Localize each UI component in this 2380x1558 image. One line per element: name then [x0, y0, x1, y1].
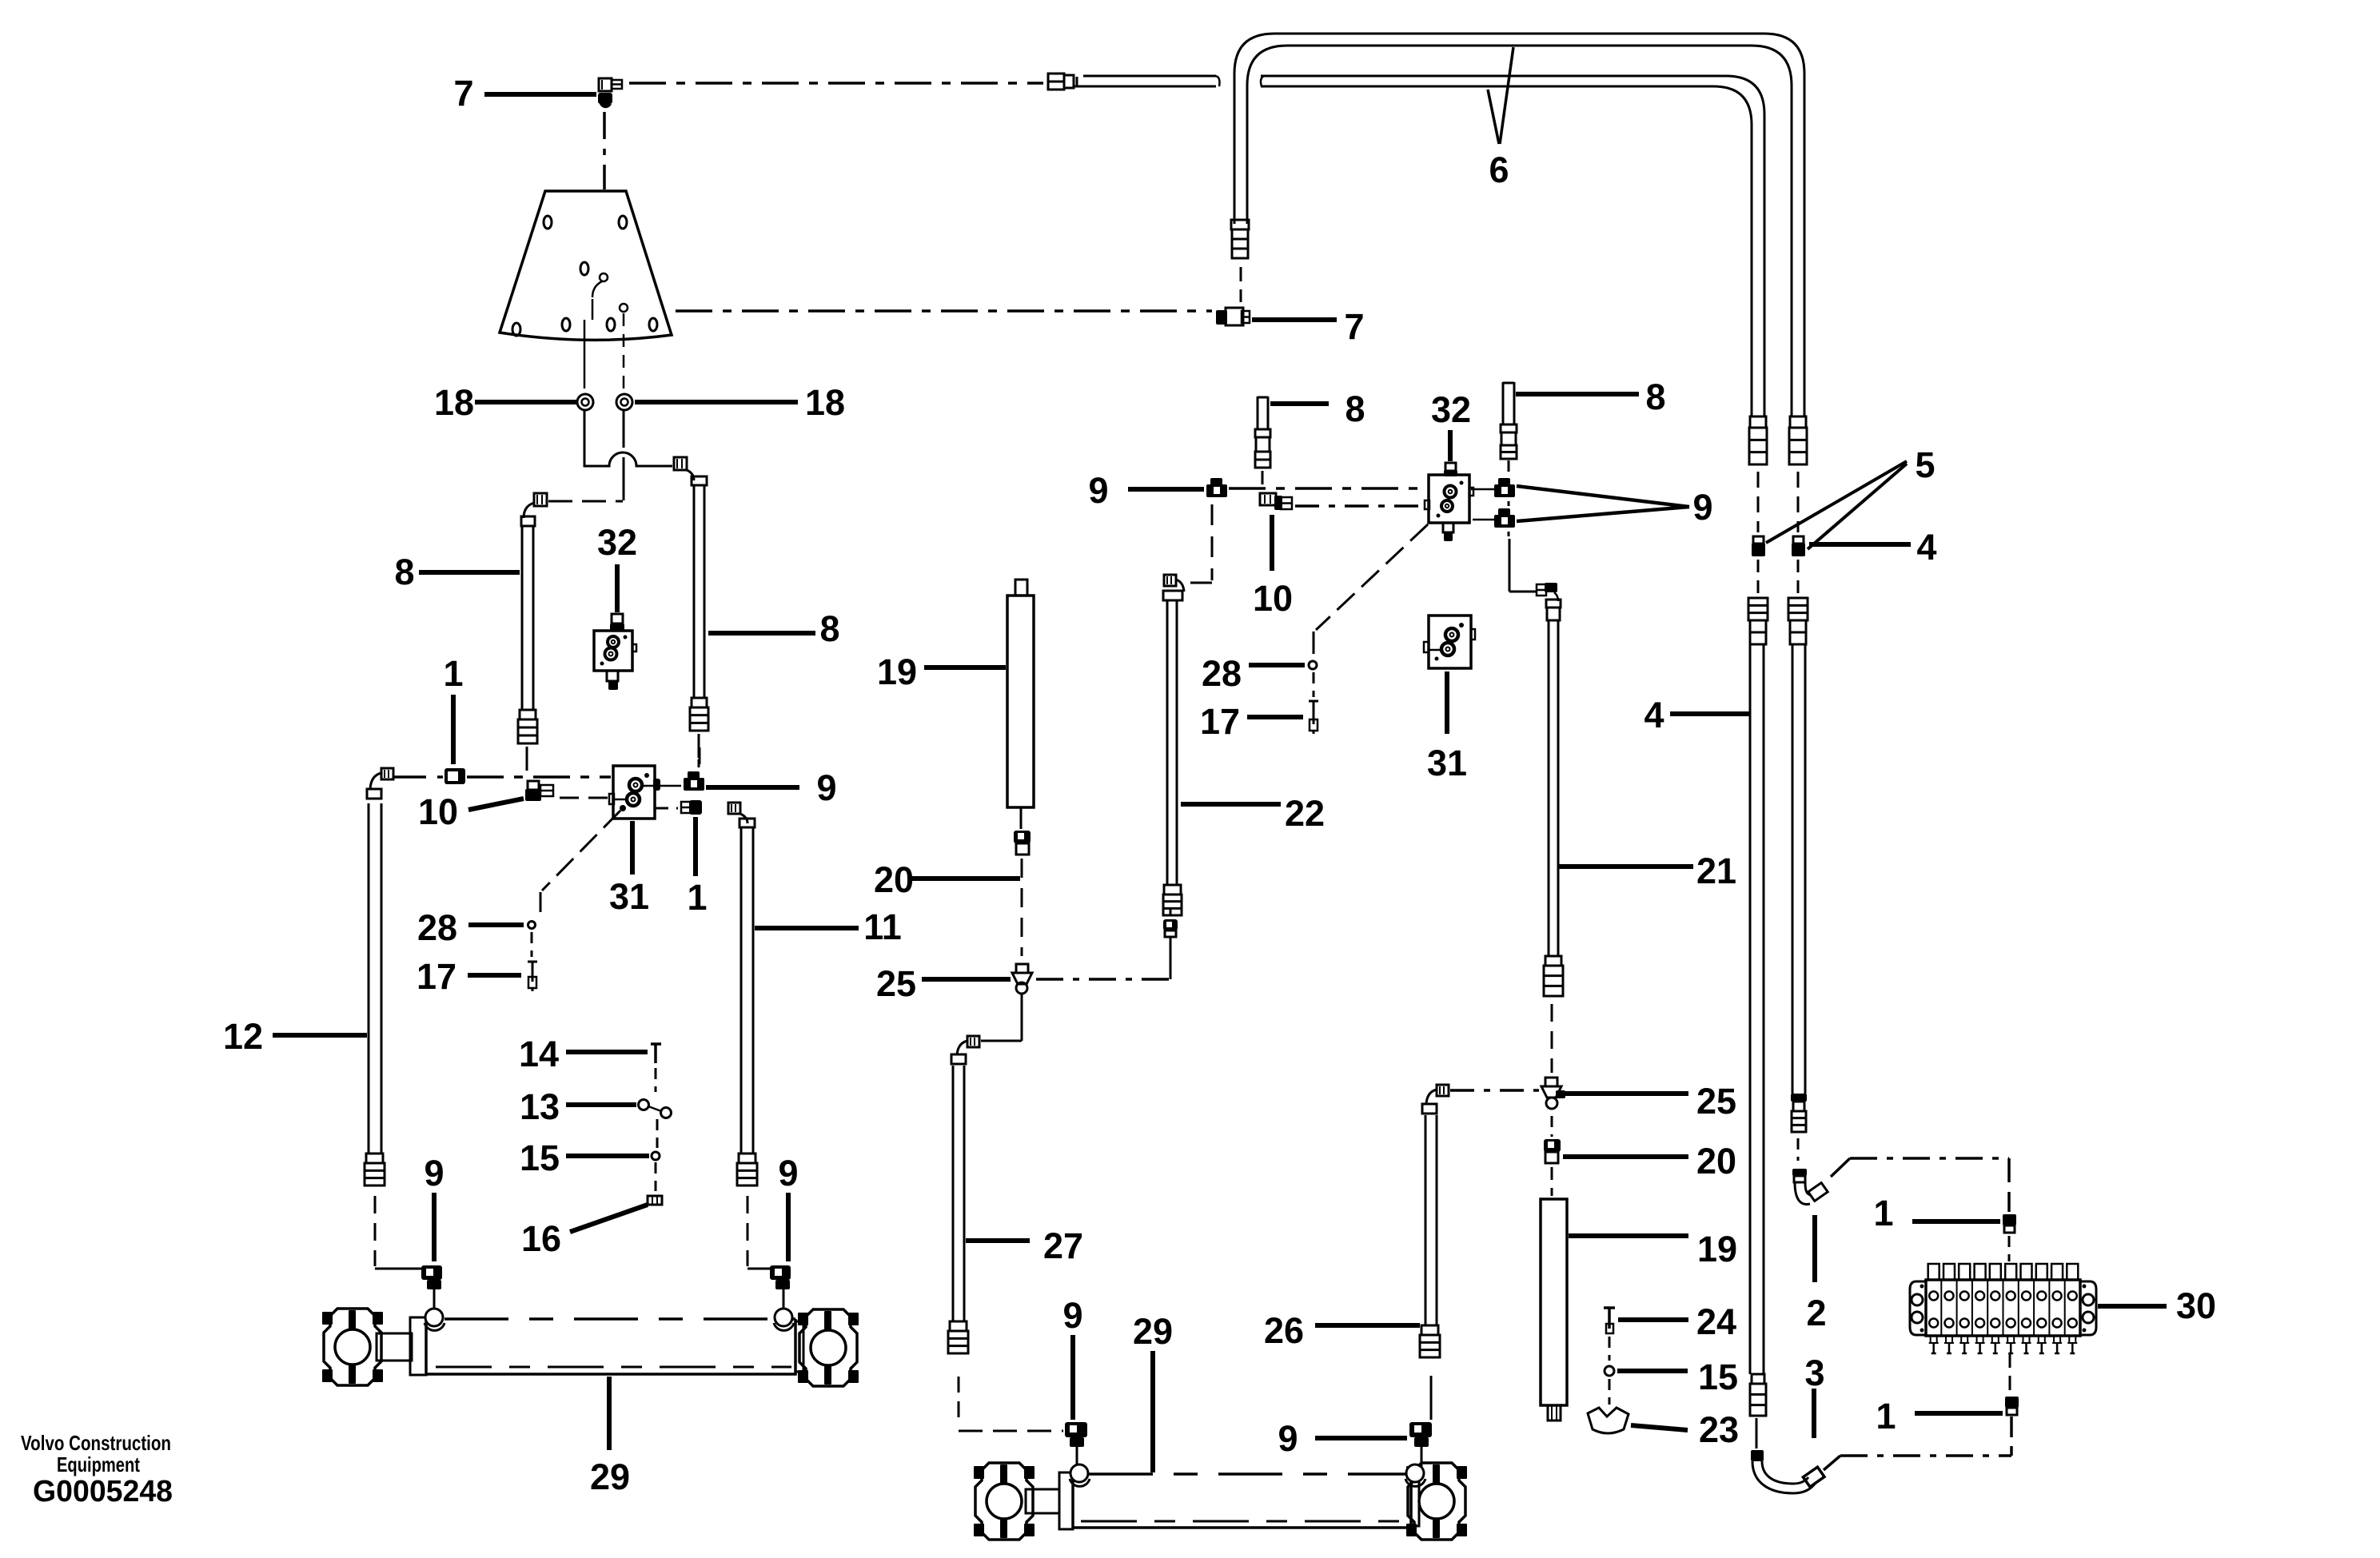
leader 4 left	[1670, 711, 1749, 716]
elbow fitting of hose 22	[1164, 575, 1176, 586]
svg-text:32: 32	[1431, 389, 1471, 430]
tube 6 outer (inner wall pair)	[1234, 34, 1804, 416]
wire to elbow 9 bottom-right of cyl29L	[747, 1268, 771, 1270]
leader 9 mid-left	[706, 785, 799, 790]
svg-text:15: 15	[1698, 1357, 1738, 1397]
cylinder 29 right - end cap	[1411, 1476, 1419, 1526]
svg-text:9: 9	[1088, 470, 1108, 511]
part 15 right (ball)	[1605, 1366, 1614, 1376]
svg-text:28: 28	[417, 907, 457, 948]
svg-text:9: 9	[424, 1153, 444, 1193]
svg-text:18: 18	[805, 382, 845, 423]
svg-text:9: 9	[816, 767, 836, 808]
bottom fitting of hose 22	[1164, 885, 1181, 895]
wire from lower T to hose 21 elbow	[1509, 539, 1511, 592]
dash-dot line from fitting 7 to hose 6b	[629, 82, 1043, 85]
leader 29 left	[607, 1377, 612, 1450]
svg-text:6: 6	[1489, 149, 1509, 190]
svg-text:G0005248: G0005248	[33, 1475, 173, 1508]
leader 23	[1631, 1425, 1688, 1430]
svg-text:11: 11	[863, 907, 902, 947]
stem of label 9 left	[432, 1193, 437, 1261]
hose 8 mid-right	[1502, 382, 1505, 424]
label 6 V-leader	[1500, 47, 1513, 144]
hose 8 mid-left	[1257, 396, 1259, 429]
hose 12	[368, 803, 370, 1154]
leader 19 mid	[924, 665, 1006, 670]
svg-text:30: 30	[2176, 1285, 2216, 1326]
leader 12	[273, 1033, 367, 1038]
dash 25R-20R	[1551, 1116, 1553, 1137]
bottom fitting of hose 27	[950, 1321, 967, 1331]
leaders for label 5	[1766, 461, 1907, 543]
svg-text:Equipment: Equipment	[57, 1452, 140, 1476]
bottom fitting of hose 11	[739, 1154, 755, 1163]
dash below T9 down to hose 22 elbow	[1211, 504, 1214, 580]
svg-text:10: 10	[1253, 578, 1293, 619]
svg-text:29: 29	[590, 1456, 630, 1497]
plate hole bottom right	[649, 318, 657, 331]
bottom fitting of hose 8 upper-left	[520, 710, 536, 719]
leader 30	[2098, 1304, 2167, 1309]
circle 28 left	[528, 922, 536, 929]
svg-text:32: 32	[597, 522, 637, 563]
svg-text:24: 24	[1696, 1301, 1736, 1342]
dash below hose 21	[1551, 1004, 1553, 1073]
svg-text:1: 1	[687, 877, 707, 918]
leader 9 (cyl29R right)	[1315, 1436, 1407, 1440]
wire 25 mid to hose 27 elbow	[1021, 994, 1023, 1041]
elbow 9 on cyl 29R left	[1065, 1422, 1087, 1437]
bottom fitting of hose 8 upper-right	[692, 698, 707, 707]
wire to elbow 9 bottom-left	[375, 1268, 421, 1270]
svg-text:25: 25	[1696, 1081, 1736, 1122]
hose 3 (bent hose)	[1751, 1450, 1764, 1461]
cylinder 29 right - center dash-dot line	[1081, 1520, 1407, 1523]
dash 28-17 left	[531, 932, 533, 957]
svg-text:15: 15	[520, 1138, 560, 1178]
dashes between T fittings	[1508, 501, 1510, 508]
svg-text:29: 29	[1133, 1311, 1173, 1352]
svg-text:1: 1	[443, 653, 463, 694]
cylinder 19 mid - body	[1007, 596, 1034, 807]
T fitting 9 right-lower	[1498, 508, 1510, 516]
dash left of fitting 1 right	[656, 807, 678, 810]
svg-text:13: 13	[520, 1086, 560, 1127]
dash 15-23	[1609, 1379, 1611, 1405]
fitting 1 upper	[2003, 1214, 2016, 1225]
cylinder 19 mid - rod line	[1020, 807, 1023, 829]
plate hole bottom row 3	[607, 318, 615, 331]
cylinder 29 left - right clamp	[799, 1309, 857, 1386]
tube 6 right leg fitting (left leg of pair)	[1750, 416, 1766, 428]
hose 21 top fitting	[1546, 600, 1561, 608]
plate hole bottom row 2	[562, 318, 570, 331]
stem of label 10 mid	[1270, 515, 1274, 571]
bottom fitting of hose 21	[1545, 956, 1561, 966]
svg-text:31: 31	[1427, 743, 1467, 783]
dashed line from plate hole down to washer 18 right	[623, 313, 625, 389]
leader 26	[1315, 1323, 1420, 1328]
svg-text:4: 4	[1916, 527, 1936, 568]
dashes 20 to 25 mid	[1021, 859, 1023, 956]
svg-text:10: 10	[418, 791, 458, 832]
svg-text:22: 22	[1285, 793, 1325, 834]
wire below hose 26	[1430, 1376, 1433, 1420]
elbow 9 on cyl 29L left	[421, 1265, 442, 1280]
hose 8 upper-right	[693, 485, 696, 698]
manifold 30 - top caps	[1928, 1264, 1939, 1280]
dashes above nuts 5	[1757, 472, 1760, 532]
elbow fitting of hose 8 upper-left	[534, 493, 547, 506]
leaders for label 9 right	[1517, 486, 1689, 507]
cylinder 29 left - right port	[775, 1309, 792, 1326]
cylinder 29 left - piston rod	[377, 1333, 412, 1361]
leader 17 left	[468, 973, 521, 978]
svg-text:8: 8	[819, 608, 839, 649]
cylinder 29 right - barrel	[1073, 1474, 1411, 1528]
dash 20R to cylinder 19R	[1551, 1167, 1553, 1196]
circle 28 mid	[1309, 661, 1317, 669]
svg-text:1: 1	[1876, 1396, 1896, 1436]
part 14 (plug)	[654, 1045, 657, 1063]
leader 9 mid	[1128, 487, 1204, 492]
fitting 7 mid	[1216, 310, 1227, 325]
tube 6 right leg fitting (right leg of pair)	[1790, 416, 1806, 428]
dash below hose 12	[374, 1196, 377, 1266]
T fitting 9 mid (left)	[1210, 478, 1222, 486]
fitting 10 left (tee with nut)	[528, 781, 539, 790]
svg-text:20: 20	[874, 859, 914, 900]
stub and dash below hose 8 upper-right	[698, 734, 700, 758]
leader 24	[1618, 1317, 1688, 1322]
T fitting 9 (left of hose 11)	[688, 771, 700, 779]
part 15 left (ball)	[652, 1152, 660, 1160]
hose 4 right top fitting	[1788, 598, 1808, 620]
dash-dot line from fitting 7 down to plate	[603, 112, 606, 189]
svg-text:21: 21	[1696, 851, 1736, 891]
cylinder 29 left - barrel	[426, 1319, 795, 1374]
svg-text:23: 23	[1699, 1409, 1739, 1450]
leader 15 left	[566, 1154, 649, 1158]
cylinder 19 right - body	[1541, 1199, 1567, 1405]
svg-text:9: 9	[1062, 1295, 1082, 1336]
svg-text:27: 27	[1043, 1225, 1083, 1266]
dash from fitting 10 to valve 31 left	[560, 797, 609, 799]
fitting 1 left (on dash-dot line)	[445, 768, 465, 784]
tube 6b right part with bend	[1261, 76, 1764, 416]
bottom fitting of valve 32 right	[1443, 523, 1453, 532]
hose 26 elbow	[1437, 1085, 1449, 1096]
washer 18 right	[616, 394, 632, 410]
svg-text:8: 8	[1345, 389, 1365, 429]
cylinder 29 right - piston rod	[1026, 1489, 1059, 1513]
tube 6 left leg bottom fitting	[1231, 220, 1249, 229]
stem of label 9 right	[786, 1193, 791, 1261]
dashed diagonal from valve 32 right to circle 28 mid	[1316, 524, 1428, 630]
svg-text:26: 26	[1264, 1310, 1304, 1351]
stem of label 32 mid	[1448, 430, 1453, 461]
leader 8 upper-left	[419, 570, 520, 575]
stub line below hose 8 upper-left	[526, 747, 528, 771]
hose 22	[1166, 600, 1169, 885]
leader 8 mid-left	[1270, 401, 1329, 406]
fitting 20b (below hose 22)	[1163, 919, 1178, 930]
elbow fitting of hose 8 upper-right	[674, 457, 687, 470]
valve block 31 left	[613, 766, 655, 819]
top fitting of valve 32 left	[612, 614, 623, 624]
leader 17 mid	[1247, 715, 1303, 719]
dash-dot from fitting 10 to valve 32 right	[1295, 504, 1428, 508]
svg-text:Volvo Construction: Volvo Construction	[21, 1431, 171, 1455]
bottom fitting of hose 12	[366, 1154, 383, 1163]
svg-text:31: 31	[609, 876, 649, 917]
elbow fitting of hose 12	[381, 768, 393, 779]
stem from valve 31 left to its label	[630, 821, 635, 875]
cylinder 29 right - rod gland	[1059, 1472, 1073, 1529]
cylinder 29 left - rod gland	[410, 1317, 426, 1375]
svg-text:7: 7	[453, 73, 473, 114]
dash-dot from hose 2 to fitting 1 upper	[1831, 1158, 1850, 1177]
dash-dot from plate to fitting 7 mid	[676, 309, 1212, 313]
tube 6b straight hose left part	[1083, 75, 1216, 78]
svg-text:9: 9	[1278, 1418, 1298, 1459]
elbow 9 on cyl 29R right	[1409, 1422, 1432, 1437]
part 24 (pin)	[1608, 1308, 1611, 1329]
bottom fitting of hose 26	[1421, 1325, 1438, 1335]
stem of label 2	[1812, 1215, 1817, 1282]
hose 21	[1548, 620, 1550, 956]
svg-text:28: 28	[1202, 653, 1242, 694]
cylinder 19 right - rod stub	[1548, 1405, 1561, 1421]
elbow fitting of hose 27	[967, 1036, 979, 1047]
cylinder 29 right - left port	[1070, 1464, 1088, 1482]
dashes below nuts 5	[1757, 560, 1760, 595]
leader 18 left	[475, 400, 576, 404]
hose 4 right bottom fitting	[1791, 1094, 1807, 1102]
hose 27	[952, 1066, 955, 1321]
svg-text:20: 20	[1696, 1141, 1736, 1181]
leader 28 left	[468, 922, 524, 927]
svg-text:18: 18	[434, 382, 474, 423]
svg-text:9: 9	[778, 1153, 798, 1193]
fitting 25 mid	[1016, 964, 1028, 973]
dash-dot 25 mid to fitting 20b	[1036, 978, 1170, 981]
leader 28 mid	[1249, 663, 1305, 667]
svg-text:1: 1	[1873, 1193, 1893, 1233]
svg-text:9: 9	[1692, 487, 1712, 528]
wire from washer 18 right down	[623, 411, 625, 448]
svg-text:17: 17	[417, 956, 456, 997]
hose 4 left top fitting	[1748, 598, 1768, 620]
leader 22	[1181, 802, 1281, 807]
leader 11	[755, 926, 859, 930]
dash below hose 4 right	[1797, 1138, 1800, 1161]
fitting 1 right (below tee)	[681, 802, 691, 813]
tube 6b straight hose left fitting	[1048, 74, 1064, 90]
svg-text:4: 4	[1644, 695, 1664, 735]
stem of label 3	[1812, 1389, 1816, 1438]
plate small hole right	[620, 304, 628, 312]
dash above fitting 20b	[1170, 908, 1172, 918]
cylinder 19 mid - top cap	[1015, 580, 1027, 596]
cylinder 29 left - left port	[425, 1309, 443, 1326]
cylinder 29 right - right port	[1406, 1464, 1424, 1482]
cylinder 29 left assembly - left clamp	[324, 1309, 381, 1385]
svg-text:3: 3	[1804, 1353, 1824, 1393]
svg-text:2: 2	[1806, 1293, 1826, 1333]
leader 4 right	[1809, 542, 1911, 547]
stem of label 29 right	[1150, 1351, 1155, 1472]
line from plate hole down to washer 18 left	[592, 299, 594, 320]
leader 14	[566, 1050, 648, 1054]
leader 19 right	[1569, 1233, 1688, 1238]
valve block 31 right	[1429, 616, 1471, 668]
leader 25 mid	[922, 977, 1011, 982]
links valve32R to T fittings 9	[1471, 488, 1494, 491]
leader 8 mid-right	[1516, 392, 1639, 396]
dash fitting1 to manifold	[2008, 1236, 2011, 1261]
cylinder 29 right assembly - left clamp	[975, 1463, 1033, 1540]
bottom fitting of valve 32 left	[607, 671, 618, 681]
hose 4 right	[1792, 644, 1794, 1094]
fitting 20 right	[1544, 1139, 1561, 1152]
washer 18 left	[577, 394, 593, 410]
svg-text:19: 19	[1697, 1229, 1737, 1269]
hose 2 (bent tube)	[1792, 1169, 1807, 1176]
hose 21 elbow	[1537, 584, 1546, 596]
plate hole top-right	[619, 216, 627, 229]
part 17 mid (pin)	[1313, 700, 1315, 724]
leader 18 right	[635, 400, 798, 404]
valve block 32 right	[1429, 475, 1469, 523]
leader 20 right	[1563, 1154, 1688, 1159]
stem to label 1 (second)	[693, 817, 698, 876]
svg-text:5: 5	[1915, 444, 1935, 485]
dash below manifold	[2009, 1353, 2011, 1391]
leader 21	[1559, 864, 1693, 869]
dash 15-16	[655, 1162, 657, 1191]
svg-text:16: 16	[521, 1218, 561, 1259]
svg-text:25: 25	[876, 963, 916, 1004]
svg-text:8: 8	[394, 552, 414, 592]
dash below hose 11	[747, 1196, 749, 1266]
leader 1 upper	[1912, 1219, 2000, 1224]
leader 16 (diagonal)	[570, 1205, 648, 1232]
dash-dot from hose26 elbow to fitting 25 right	[1450, 1089, 1539, 1092]
dash-dot line T9 to valve 32 right	[1229, 487, 1428, 490]
plate hole bottom row 1	[512, 323, 520, 336]
valve block 32 left	[594, 631, 632, 671]
elbow 9 on cyl 29L right	[770, 1265, 791, 1280]
part 13 (two rings)	[639, 1100, 649, 1110]
T fitting 9 right-upper	[1498, 478, 1510, 486]
stem from label 32 down to valve	[615, 564, 620, 612]
svg-text:14: 14	[519, 1034, 559, 1074]
part 23 (wedge clamp)	[1588, 1408, 1629, 1433]
elbow fitting 7 left	[599, 78, 612, 91]
stem of label 1 left	[451, 695, 456, 764]
nut 5 right	[1793, 536, 1804, 544]
leader 15 right	[1617, 1369, 1688, 1373]
leader 1 lower	[1915, 1411, 2003, 1416]
plate small hole with hook	[600, 273, 608, 281]
mounting plate (trapezoid)	[500, 191, 672, 340]
dash-dot from fitting 1 lower to hose 3	[2010, 1417, 2013, 1456]
dash below tube 6 left leg	[1240, 267, 1242, 302]
top fitting of valve 32 right	[1445, 463, 1456, 471]
svg-text:12: 12	[223, 1016, 263, 1057]
leader for label 7 left	[484, 92, 596, 97]
svg-text:8: 8	[1645, 377, 1665, 417]
plate hole top-left	[544, 216, 552, 229]
leader 20 mid	[912, 876, 1020, 881]
cylinder 29 left - end cap	[795, 1321, 803, 1372]
cylinder 29 right - right clamp	[1408, 1463, 1465, 1540]
fitting 10 mid (elbow)	[1260, 493, 1276, 505]
fitting 1 lower	[2005, 1397, 2019, 1408]
svg-text:7: 7	[1344, 306, 1364, 347]
dash below hose 27	[958, 1377, 960, 1425]
manifold 30 - body sections	[1926, 1280, 2080, 1336]
leader 13	[566, 1102, 636, 1107]
leader 25 right	[1563, 1091, 1688, 1096]
fitting 25 right	[1545, 1078, 1557, 1086]
dashed diagonal from valve 31 left to circle 28	[620, 805, 626, 811]
hose 8 upper-left	[521, 526, 524, 710]
stem of label 9	[1070, 1335, 1075, 1420]
dash 14-13	[655, 1068, 657, 1092]
dashes to elbow 9 (cyl 29R left)	[959, 1430, 1063, 1432]
manifold 30 - left end plate	[1910, 1281, 1926, 1335]
leader 7 mid	[1252, 317, 1337, 322]
dash-dot from washer-18-right wire to elbow of hose 8 upper-left	[548, 500, 623, 503]
hose 11	[740, 827, 743, 1154]
nut 5 left	[1753, 536, 1764, 544]
manifold 30 - right end plate	[2080, 1281, 2096, 1335]
manifold 30 - bottom pins	[1930, 1336, 1932, 1343]
hose 26	[1425, 1115, 1427, 1325]
part 16 (nut)	[648, 1196, 662, 1205]
dash 28-17 mid	[1313, 672, 1315, 697]
stem from valve 31 right to label	[1445, 671, 1449, 734]
leader 10 left	[468, 799, 524, 810]
wire from washer 18 left down and right with jump arc	[584, 411, 672, 466]
dash-dot line through fitting 1 left to valve 31	[394, 775, 443, 779]
dash 24-15	[1609, 1337, 1611, 1361]
hose 4 left	[1749, 644, 1752, 1374]
plate hole middle	[580, 262, 588, 275]
part 17 left (pin)	[532, 961, 534, 982]
hose 4 left bottom fitting	[1752, 1374, 1764, 1384]
cylinder 29 left - center dash-dot line	[436, 1366, 791, 1369]
dash 13-15	[656, 1119, 659, 1148]
leader 8 upper-right	[708, 631, 815, 636]
svg-text:19: 19	[877, 651, 917, 692]
svg-text:17: 17	[1200, 701, 1240, 742]
elbow fitting of hose 11	[728, 803, 740, 814]
fitting 20 mid	[1014, 831, 1031, 843]
leader 27	[966, 1238, 1030, 1243]
